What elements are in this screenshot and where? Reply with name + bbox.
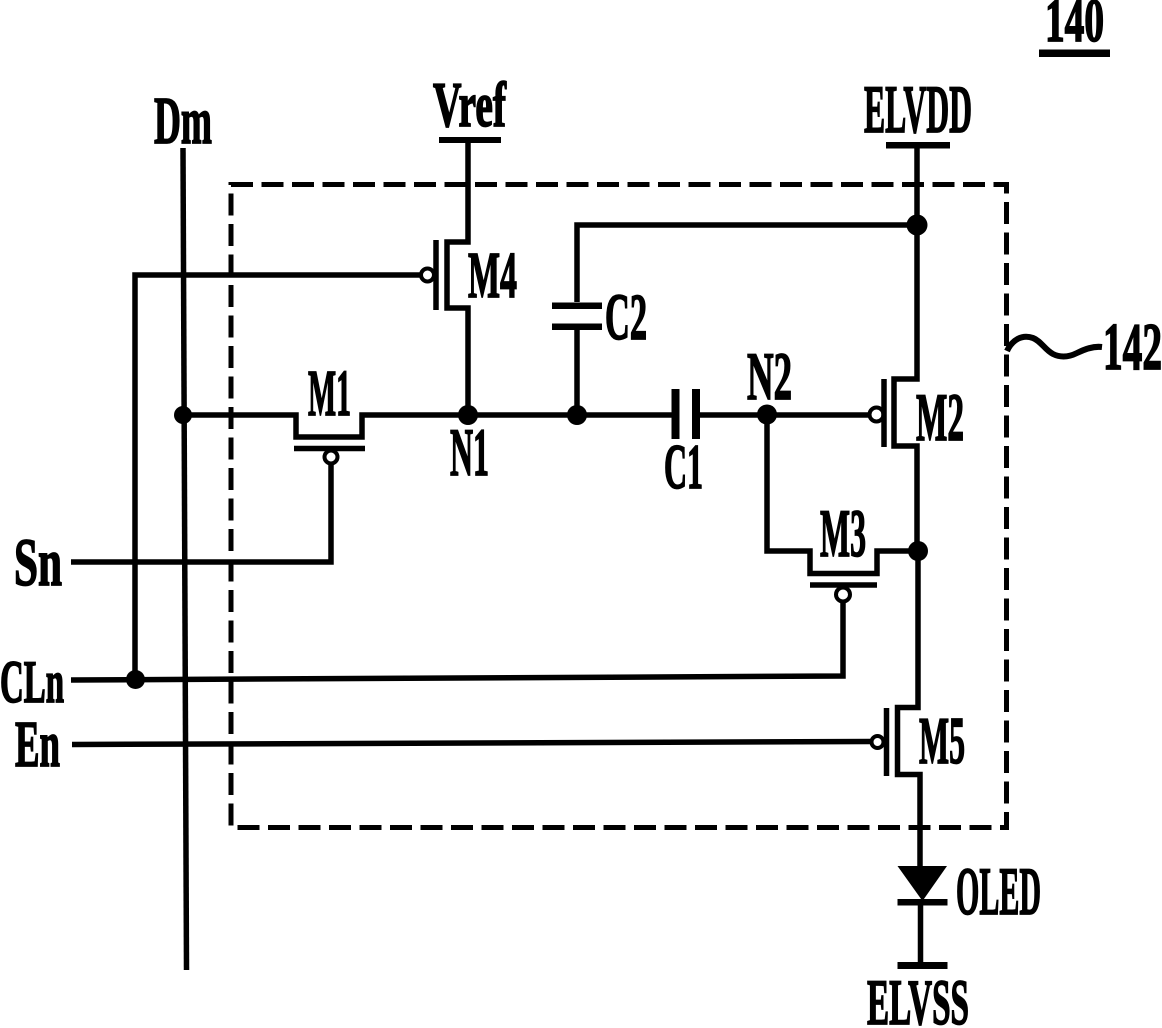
svg-text:142: 142: [1103, 310, 1162, 384]
svg-text:M3: M3: [820, 495, 866, 571]
svg-text:Sn: Sn: [14, 524, 62, 600]
svg-text:C2: C2: [605, 281, 647, 354]
svg-text:140: 140: [1045, 0, 1104, 55]
svg-text:ELVSS: ELVSS: [867, 967, 969, 1028]
svg-text:M4: M4: [468, 239, 517, 312]
svg-text:En: En: [15, 708, 60, 781]
svg-text:M5: M5: [919, 704, 965, 778]
svg-text:M2: M2: [916, 379, 964, 455]
svg-text:M1: M1: [308, 357, 351, 430]
svg-text:CLn: CLn: [0, 649, 64, 715]
svg-text:Vref: Vref: [433, 69, 506, 140]
svg-text:ELVDD: ELVDD: [864, 71, 972, 147]
svg-text:C1: C1: [664, 431, 703, 502]
svg-text:OLED: OLED: [956, 853, 1041, 929]
svg-text:N1: N1: [450, 414, 489, 490]
svg-text:N2: N2: [747, 338, 792, 414]
svg-text:Dm: Dm: [154, 84, 212, 158]
